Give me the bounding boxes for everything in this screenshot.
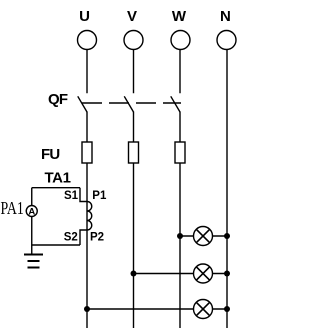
svg-text:U: U	[79, 8, 90, 25]
svg-text:W: W	[172, 8, 187, 25]
svg-text:FU: FU	[41, 146, 59, 163]
svg-text:P1: P1	[92, 190, 107, 202]
svg-text:V: V	[127, 8, 137, 25]
svg-text:S1: S1	[64, 190, 79, 202]
svg-text:A: A	[28, 206, 35, 217]
svg-text:QF: QF	[48, 91, 68, 108]
svg-text:N: N	[220, 8, 231, 25]
svg-text:PA1: PA1	[1, 199, 24, 218]
svg-text:S2: S2	[64, 232, 78, 244]
svg-text:TA1: TA1	[45, 170, 71, 187]
svg-text:P2: P2	[90, 232, 104, 244]
